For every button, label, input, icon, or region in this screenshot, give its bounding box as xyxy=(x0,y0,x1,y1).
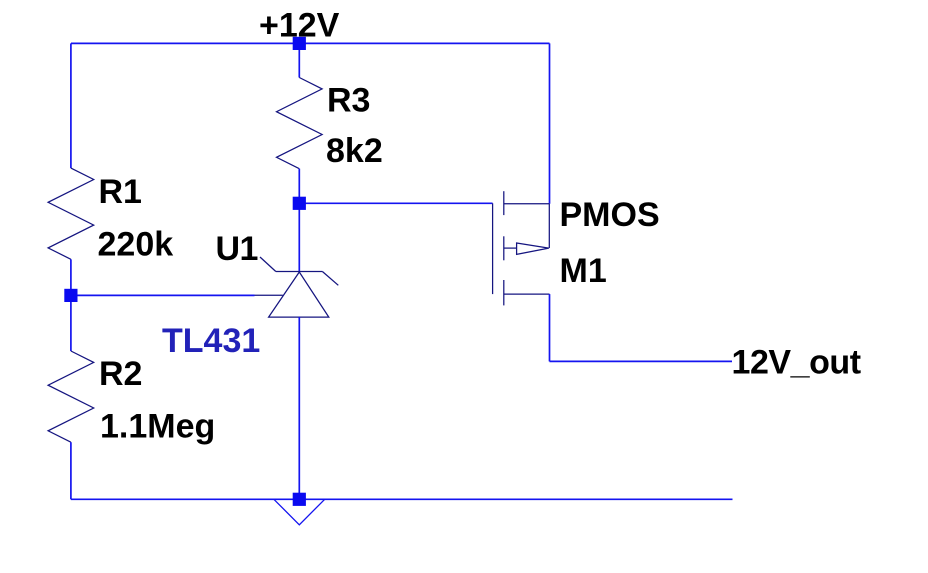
wire right rail lower (M1 drain down) xyxy=(549,294,551,361)
U1 cathode bar left bent end xyxy=(260,257,276,272)
M1 source-to-bulk rail segment xyxy=(548,204,550,248)
node gate junction xyxy=(293,197,306,210)
wire R2 bottom to bottom rail xyxy=(70,442,72,499)
wire gate node down to U1 cathode xyxy=(298,203,300,271)
svg-text:+12V: +12V xyxy=(259,6,340,44)
wire R3 bottom to gate node xyxy=(298,169,300,204)
M1 bulk arrow xyxy=(517,243,549,254)
M1 bulk stub xyxy=(504,247,517,249)
svg-text:TL431: TL431 xyxy=(162,322,260,360)
wire R1 bottom to node A xyxy=(70,259,72,295)
wire node A to U1 ref pin xyxy=(71,294,255,296)
svg-text:220k: 220k xyxy=(98,225,174,263)
svg-text:12V_out: 12V_out xyxy=(732,344,861,382)
node top rail junction xyxy=(293,37,306,50)
svg-text:R3: R3 xyxy=(327,82,370,120)
U1 cathode bar right bent end xyxy=(322,272,338,286)
resistor R2 xyxy=(48,351,94,442)
wire U1 anode to ground rail xyxy=(298,317,300,499)
M1 source stub xyxy=(504,203,550,205)
svg-text:M1: M1 xyxy=(560,252,607,290)
svg-text:R1: R1 xyxy=(99,173,142,211)
wire output to 12V_out xyxy=(550,360,733,362)
wire left rail upper (top rail to R1) xyxy=(70,43,72,168)
resistor R1 xyxy=(48,168,94,259)
wire node A to R2 top xyxy=(70,295,72,351)
transistor M1 gate plate xyxy=(492,203,494,294)
node A junction (R1/R2/ref) xyxy=(64,289,77,302)
wire gate node to M1 gate xyxy=(299,202,492,204)
M1 channel segment middle xyxy=(503,236,505,260)
svg-text:U1: U1 xyxy=(216,230,258,268)
wire bottom rail (ground net) xyxy=(71,498,733,500)
wire R3 top stub xyxy=(298,43,300,77)
M1 drain stub xyxy=(504,293,550,295)
resistor R3 xyxy=(277,78,323,169)
M1 channel segment top xyxy=(503,191,505,215)
svg-text:PMOS: PMOS xyxy=(560,196,660,234)
M1 channel segment bottom xyxy=(503,280,505,305)
U1 zener cathode bar xyxy=(276,271,323,273)
op-amp U1 TL431 triangle body xyxy=(269,272,329,317)
node ground junction xyxy=(293,493,306,506)
wire right rail upper (top rail to M1 source) xyxy=(549,43,551,203)
U1 ref lead xyxy=(255,294,283,296)
wire top rail +12V xyxy=(71,42,550,44)
ground xyxy=(274,499,325,524)
svg-text:1.1Meg: 1.1Meg xyxy=(100,407,215,445)
svg-text:8k2: 8k2 xyxy=(326,132,383,170)
svg-text:R2: R2 xyxy=(99,355,142,393)
